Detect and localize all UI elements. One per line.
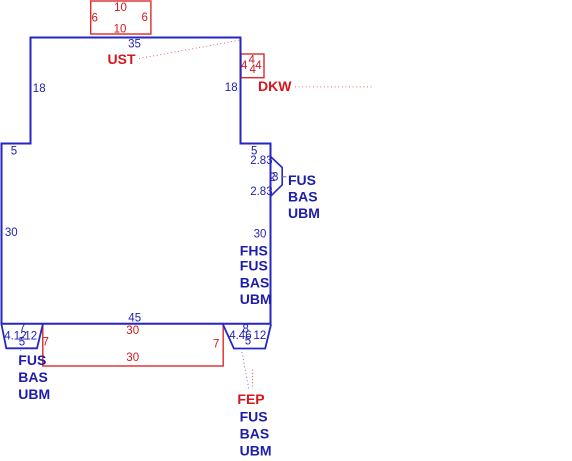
chamfer bay right: [271, 157, 283, 197]
svg-text:2.83: 2.83: [250, 155, 272, 167]
svg-text:FUS: FUS: [240, 257, 268, 273]
red box DKW: [241, 54, 264, 78]
svg-text:30: 30: [126, 325, 139, 337]
svg-text:6: 6: [141, 12, 147, 24]
svg-text:45: 45: [128, 313, 141, 325]
svg-text:UBM: UBM: [240, 443, 272, 459]
svg-text:10: 10: [114, 2, 127, 14]
svg-text:18: 18: [33, 83, 46, 95]
svg-text:30: 30: [254, 229, 267, 241]
svg-text:5: 5: [19, 337, 25, 349]
svg-text:UST: UST: [108, 51, 136, 67]
svg-text:BAS: BAS: [240, 274, 270, 290]
leader UST dotted: [139, 40, 241, 59]
svg-text:BAS: BAS: [240, 425, 270, 441]
svg-text:FUS: FUS: [18, 352, 46, 368]
svg-text:18: 18: [225, 82, 238, 94]
right bottom trapezoid: [223, 325, 271, 349]
red box UST top: [91, 1, 151, 34]
svg-text:3: 3: [272, 172, 278, 184]
svg-text:5: 5: [245, 336, 251, 348]
svg-text:DKW: DKW: [258, 78, 292, 94]
svg-text:BAS: BAS: [288, 189, 318, 205]
red box bottom: [43, 324, 223, 366]
svg-text:4: 4: [255, 60, 262, 72]
svg-text:10: 10: [114, 23, 127, 35]
leader FEP red dotted: [252, 370, 254, 390]
left bottom trapezoid: [2, 325, 43, 349]
svg-text:UBM: UBM: [240, 291, 272, 307]
leader DKW dotted: [295, 86, 374, 88]
svg-text:UBM: UBM: [288, 205, 320, 221]
svg-text:7: 7: [213, 339, 219, 351]
svg-text:4: 4: [241, 60, 248, 72]
svg-text:FEP: FEP: [237, 391, 264, 407]
svg-text:FHS: FHS: [240, 242, 268, 258]
svg-text:12: 12: [24, 330, 37, 342]
svg-text:BAS: BAS: [18, 369, 48, 385]
svg-text:FUS: FUS: [240, 408, 268, 424]
svg-text:6: 6: [91, 12, 97, 24]
svg-text:7: 7: [42, 336, 48, 348]
svg-text:12: 12: [254, 330, 267, 342]
tick mark right of bay: [283, 176, 287, 178]
svg-text:35: 35: [128, 38, 141, 50]
svg-text:UBM: UBM: [18, 386, 50, 402]
svg-text:2.83: 2.83: [250, 186, 272, 198]
svg-text:30: 30: [5, 227, 18, 239]
leader blue dotted to FEP block: [241, 349, 249, 390]
svg-text:5: 5: [11, 146, 17, 158]
leader blue dots under left trapezoid: [20, 350, 22, 357]
svg-text:30: 30: [126, 352, 139, 364]
svg-text:FUS: FUS: [288, 172, 316, 188]
building outline: [2, 38, 271, 324]
